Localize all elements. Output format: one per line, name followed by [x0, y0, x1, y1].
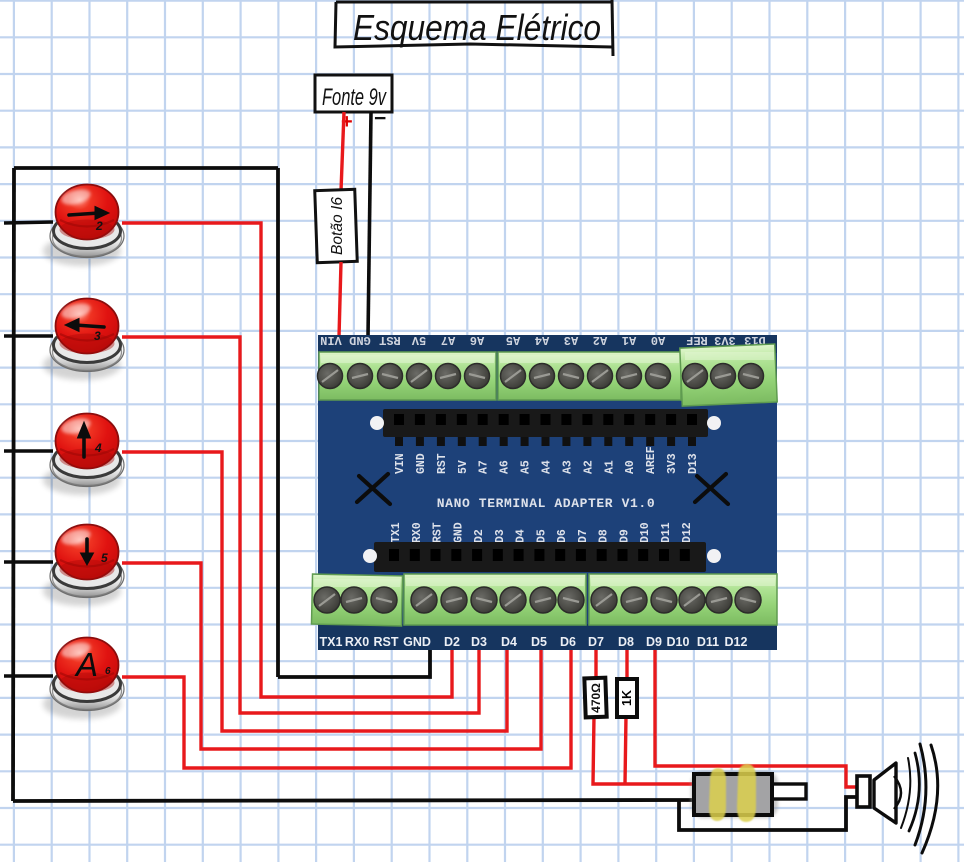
wire right vertical bus (to GND): [276, 168, 280, 677]
push button S2 (right arrow): [43, 185, 124, 267]
terminal screws bottom row: [314, 587, 761, 613]
svg-text:REF: REF: [686, 333, 708, 347]
svg-text:Botão I6: Botão I6: [329, 197, 346, 255]
svg-text:RST: RST: [436, 453, 449, 474]
wire button2 to D2 (red): [122, 223, 452, 697]
svg-text:RX0: RX0: [411, 522, 424, 543]
svg-text:A7: A7: [478, 460, 491, 474]
push button S3 (left arrow): [43, 299, 124, 381]
wire D7 through resistor R470 (red): [593, 649, 694, 784]
wire left vertical bus: [13, 168, 14, 801]
svg-text:470Ω: 470Ω: [589, 683, 603, 713]
resistor R3 soft outline blob: [691, 771, 778, 818]
svg-text:Esquema Elétrico: Esquema Elétrico: [353, 7, 601, 48]
svg-text:A4: A4: [541, 460, 554, 474]
push button S4 (up arrow): [43, 414, 124, 496]
svg-text:A6: A6: [499, 460, 512, 474]
mounting hole top-left: [370, 416, 384, 430]
svg-text:RX0: RX0: [345, 635, 369, 649]
svg-text:3V3: 3V3: [714, 333, 736, 347]
resistor R3 right lead: [772, 784, 806, 799]
svg-text:4: 4: [94, 441, 102, 455]
svg-text:A7: A7: [441, 333, 455, 347]
silkscreen labels top header pins: [394, 446, 700, 474]
hole marker X left: [357, 474, 390, 504]
resistor R3 yellow band 1: [709, 768, 726, 821]
svg-text:A0: A0: [624, 460, 637, 474]
speaker SP1 magnet: [857, 776, 870, 807]
svg-text:VIN: VIN: [394, 453, 407, 474]
svg-text:A2: A2: [582, 460, 595, 474]
svg-text:D3: D3: [494, 529, 507, 543]
svg-text:3: 3: [94, 329, 101, 343]
speaker sound waves: [901, 744, 938, 853]
title box Esquema Eletrico: [335, 0, 613, 56]
svg-text:D7: D7: [577, 529, 590, 543]
svg-text:A5: A5: [520, 460, 533, 474]
svg-text:A6: A6: [470, 333, 484, 347]
svg-text:D4: D4: [501, 635, 517, 649]
terminal screws top row: [318, 364, 764, 389]
wire button3 stub (black): [4, 334, 53, 338]
svg-text:D9: D9: [619, 529, 632, 543]
wire button3 to D3 (red): [122, 337, 479, 713]
svg-text:D12: D12: [725, 635, 748, 649]
svg-text:RST: RST: [379, 333, 401, 347]
svg-text:A2: A2: [593, 333, 607, 347]
wire botao to board VIN (red): [339, 262, 341, 337]
wire button2 stub (black): [4, 222, 53, 223]
svg-text:A3: A3: [564, 333, 578, 347]
wire button6 stub (black): [4, 674, 53, 678]
terminal block top-right (REF 3V3 D13): [680, 344, 777, 406]
svg-text:NANO TERMINAL ADAPTER V1.0: NANO TERMINAL ADAPTER V1.0: [437, 496, 655, 511]
mounting hole top-right: [707, 416, 721, 430]
svg-text:D7: D7: [588, 635, 604, 649]
svg-text:D12: D12: [681, 522, 694, 543]
svg-text:GND: GND: [415, 453, 428, 474]
svg-text:D6: D6: [556, 529, 569, 543]
svg-text:A5: A5: [506, 333, 520, 347]
svg-text:D11: D11: [660, 522, 673, 543]
push button S6 (A): [43, 638, 124, 720]
svg-text:D8: D8: [598, 529, 611, 543]
wire button6 to D6 (red): [122, 649, 571, 768]
wire button5 stub (black): [4, 560, 53, 564]
pin header top row: [383, 409, 708, 446]
svg-text:D4: D4: [515, 529, 528, 543]
speaker SP1: [857, 744, 938, 853]
mounting hole bottom-left: [363, 549, 377, 563]
svg-text:D10: D10: [667, 635, 690, 649]
svg-text:D8: D8: [618, 635, 634, 649]
svg-text:D3: D3: [471, 635, 487, 649]
resistor R3 yellow band 2: [737, 764, 756, 822]
svg-text:RST: RST: [432, 522, 445, 543]
svg-text:6: 6: [105, 666, 111, 677]
wire fonte- to board GND top (black): [368, 112, 371, 337]
arduino nano terminal adapter board U1: [311, 333, 777, 650]
svg-text:5V: 5V: [411, 333, 426, 347]
svg-text:2: 2: [95, 219, 103, 233]
wire bottom black bus to resistor and speaker: [13, 800, 694, 801]
svg-text:D11: D11: [697, 635, 719, 649]
svg-text:A0: A0: [651, 333, 665, 347]
svg-text:RST: RST: [374, 635, 399, 649]
board top pin labels (flipped): VIN GND RST 5V A7 A6 A5 A4 A3 A2 A1 A0 REF 3V3 D13: [320, 333, 766, 347]
terminal block bottom-right (D7..D12): [589, 574, 777, 625]
resistor R3 body: [694, 774, 772, 815]
power supply Fonte 9v box: [315, 75, 392, 133]
svg-text:D10: D10: [639, 522, 652, 543]
silkscreen labels bottom header pins: [390, 522, 694, 543]
resistor R3 (photo-style grey body with yellow bands): [691, 764, 806, 822]
svg-text:−: −: [374, 107, 386, 130]
svg-text:TX1: TX1: [320, 635, 343, 649]
svg-text:5: 5: [101, 551, 108, 565]
wire button4 stub (black): [4, 449, 53, 453]
resistor R1 470ohm box: [584, 678, 606, 718]
speaker SP1 cone inner arc: [894, 776, 901, 809]
svg-text:5V: 5V: [457, 460, 470, 474]
terminal block top-middle (A5..A0): [498, 352, 681, 400]
svg-text:GND: GND: [349, 333, 371, 347]
svg-text:A1: A1: [622, 333, 636, 347]
pin header bottom row: [374, 542, 706, 572]
wire button5 to D5 (red): [122, 563, 541, 749]
hole marker X right: [695, 474, 728, 504]
mounting hole bottom-right: [707, 549, 721, 563]
svg-text:GND: GND: [452, 522, 465, 543]
svg-text:D2: D2: [444, 635, 460, 649]
terminal block bottom-left (TX1 RX0 RST): [311, 574, 402, 626]
resistor R2 1K box: [617, 679, 637, 717]
svg-text:A4: A4: [535, 333, 549, 347]
wire button4 to D4 (red): [122, 452, 507, 731]
svg-text:GND: GND: [403, 635, 431, 649]
svg-text:D13: D13: [687, 453, 700, 474]
speaker SP1 cone: [874, 763, 896, 823]
terminal block bottom-middle (GND D2..D6): [404, 574, 586, 625]
board PCB body: [318, 335, 777, 650]
svg-text:D5: D5: [531, 635, 547, 649]
arcade buttons: [43, 185, 124, 720]
svg-text:AREF: AREF: [645, 446, 658, 474]
svg-text:VIN: VIN: [320, 333, 342, 347]
wire D9 to speaker (red): [655, 649, 860, 787]
wire GND to bus: horizontal + vertical to board: [278, 649, 430, 677]
wire fonte+ to botao (red): [341, 112, 344, 191]
svg-text:A1: A1: [603, 460, 616, 474]
svg-text:A3: A3: [561, 460, 574, 474]
svg-text:D6: D6: [560, 635, 576, 649]
wire D8 through resistor R1K joins junction (red): [625, 649, 627, 784]
terminal block top-left (VIN..A6): [319, 352, 496, 400]
svg-text:A: A: [74, 646, 98, 683]
board bottom labels TX1..D12: [320, 635, 748, 649]
svg-text:TX1: TX1: [390, 522, 403, 543]
svg-text:D2: D2: [473, 529, 486, 543]
BUTTONS-COMMON black bus: top horizontal wire: [14, 166, 278, 170]
push button S5 (down arrow): [43, 525, 124, 607]
svg-text:D9: D9: [646, 635, 662, 649]
svg-text:1K: 1K: [620, 690, 634, 706]
svg-text:D5: D5: [535, 529, 548, 543]
svg-text:3V3: 3V3: [666, 453, 679, 474]
push button Botao I6 box: [315, 189, 357, 262]
